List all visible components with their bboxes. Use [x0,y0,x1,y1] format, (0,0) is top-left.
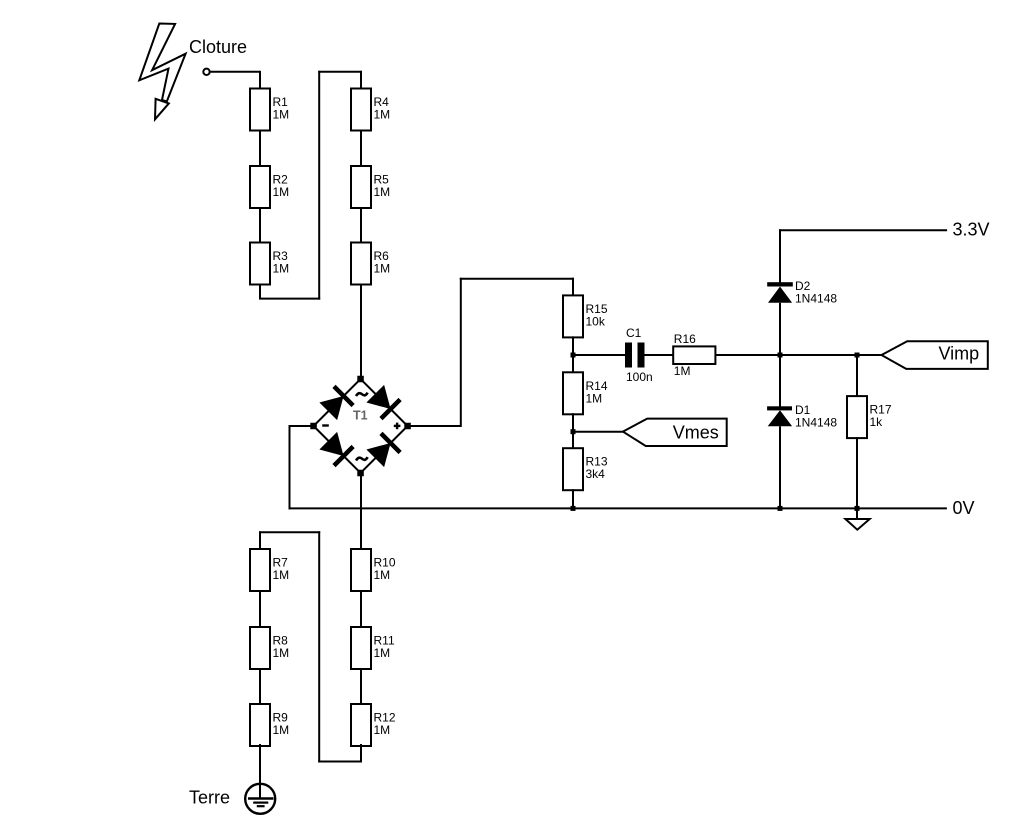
minus terminal mark [322,424,329,426]
AC tilde mark (top) [356,393,368,396]
resistor R2 [250,166,289,208]
resistor R3 [250,243,289,285]
wire [460,278,574,280]
lightning bolt symbol [139,24,185,102]
svg-text:1M: 1M [586,391,603,405]
bridge diode (top to right) [366,385,390,409]
wire (bridge + to right) [408,425,461,427]
diode D2 [767,279,837,305]
resistor R6 [351,243,390,285]
hierarchical label Vmes [623,419,727,446]
wire (node to R17) [856,355,858,397]
svg-text:Cloture: Cloture [189,37,247,57]
wire [318,531,320,762]
wire (R9 to Terre) [259,744,261,799]
junction (R17 top) [855,353,860,358]
bridge diode (left to top) [319,396,343,420]
svg-text:1M: 1M [374,108,391,122]
wire [259,71,261,90]
wire (3.3V to D2) [779,229,781,283]
svg-text:Terre: Terre [189,788,230,808]
svg-text:1M: 1M [674,364,691,378]
resistor R11 [351,627,395,669]
svg-text:Vimp: Vimp [939,344,980,364]
wire [318,761,362,763]
svg-text:1k: 1k [870,415,884,429]
wire 0V rail [289,507,947,509]
svg-text:1M: 1M [374,568,391,582]
wire (D1 to 0V) [779,426,781,509]
svg-text:1M: 1M [273,185,290,199]
wire [259,284,261,299]
junction (0V) [778,506,783,511]
wire [259,531,261,550]
wire [259,298,320,300]
wire [360,130,362,168]
svg-text:R16: R16 [674,332,696,346]
junction (bridge + pin) [404,423,411,430]
svg-text:1N4148: 1N4148 [795,415,837,429]
svg-text:1M: 1M [273,723,290,737]
svg-text:1M: 1M [273,108,290,122]
wire [360,71,362,90]
hierarchical label Vimp [882,341,988,369]
wire [259,668,261,705]
svg-text:0V: 0V [953,498,975,518]
wire [259,130,261,168]
resistor R7 [250,549,289,591]
svg-text:Vmes: Vmes [673,422,719,442]
svg-text:1N4148: 1N4148 [795,291,837,305]
resistor R5 [351,166,390,208]
resistor R8 [250,627,289,669]
svg-text:10k: 10k [586,314,606,328]
junction (measure node) [571,353,576,358]
wire [318,71,362,73]
resistor R15 [563,295,608,337]
resistor R17 [847,396,892,438]
bridge diode (bottom to right) [366,443,390,467]
svg-text:1M: 1M [374,723,391,737]
svg-text:3.3V: 3.3V [953,219,990,239]
earth/Terre protective ground symbol [245,784,275,814]
wire [360,668,362,705]
wire (R16 to Vimp) [715,354,881,356]
svg-text:1M: 1M [273,646,290,660]
capacitor C1 [625,326,653,384]
wire (bridge - to left) [290,425,314,427]
wire 3.3V rail [779,229,947,231]
wire (node to D1) [779,355,781,407]
ground symbol [845,508,869,529]
wire [259,590,261,628]
plus terminal mark [394,425,401,427]
resistor R9 [250,704,289,746]
resistor R12 [351,704,396,746]
svg-text:1M: 1M [273,262,290,276]
svg-text:T1: T1 [353,409,368,423]
wire (node to Vmes) [573,431,623,433]
bridge diamond outline [314,379,408,473]
diode D1 [767,403,837,429]
svg-text:1M: 1M [273,568,290,582]
wire [210,71,260,73]
terminal circle (Cloture input pin) [203,69,209,75]
junction (0V) [571,506,576,511]
resistor R16 [673,332,715,378]
bridge rectifier T1 [314,379,408,473]
junction (Vimp node / diode clamp) [778,353,783,358]
wire [259,207,261,244]
svg-text:100n: 100n [626,370,653,384]
svg-text:1M: 1M [374,646,391,660]
wire (R15 to R14) [572,336,574,373]
resistor R14 [563,372,608,414]
AC tilde mark (bottom) [356,457,368,460]
wire [460,278,462,427]
wire [360,744,362,762]
resistor R4 [351,89,390,131]
svg-text:1M: 1M [374,185,391,199]
wire [572,278,574,297]
wire (node to C1) [573,354,625,356]
wire [259,531,320,533]
junction (0V / ground) [855,506,860,511]
wire (R14 to R13) [572,413,574,449]
svg-text:1M: 1M [374,262,391,276]
wire [360,207,362,244]
svg-text:C1: C1 [626,326,642,340]
wire [318,71,320,300]
lightning bolt arrowhead [155,99,169,120]
resistor R10 [351,549,396,591]
junction (bridge - pin) [310,423,317,430]
wire [360,590,362,628]
junction (bridge AC bottom pin) [357,470,364,477]
wire (D2 to node) [779,303,781,356]
wire [289,425,291,509]
wire (R6 to bridge AC top) [360,284,362,380]
wire (C1 to R16) [645,354,674,356]
wire (R17 to 0V) [856,437,858,509]
bridge diode (left to bottom) [319,432,343,456]
wire (R13 to 0V) [572,489,574,508]
resistor R13 [563,448,608,490]
junction (bridge AC top pin) [357,376,364,383]
resistor R1 [250,89,289,131]
svg-text:3k4: 3k4 [586,467,606,481]
junction (Vmes node) [571,429,576,434]
wire (bridge AC bottom to R10) [360,473,362,550]
